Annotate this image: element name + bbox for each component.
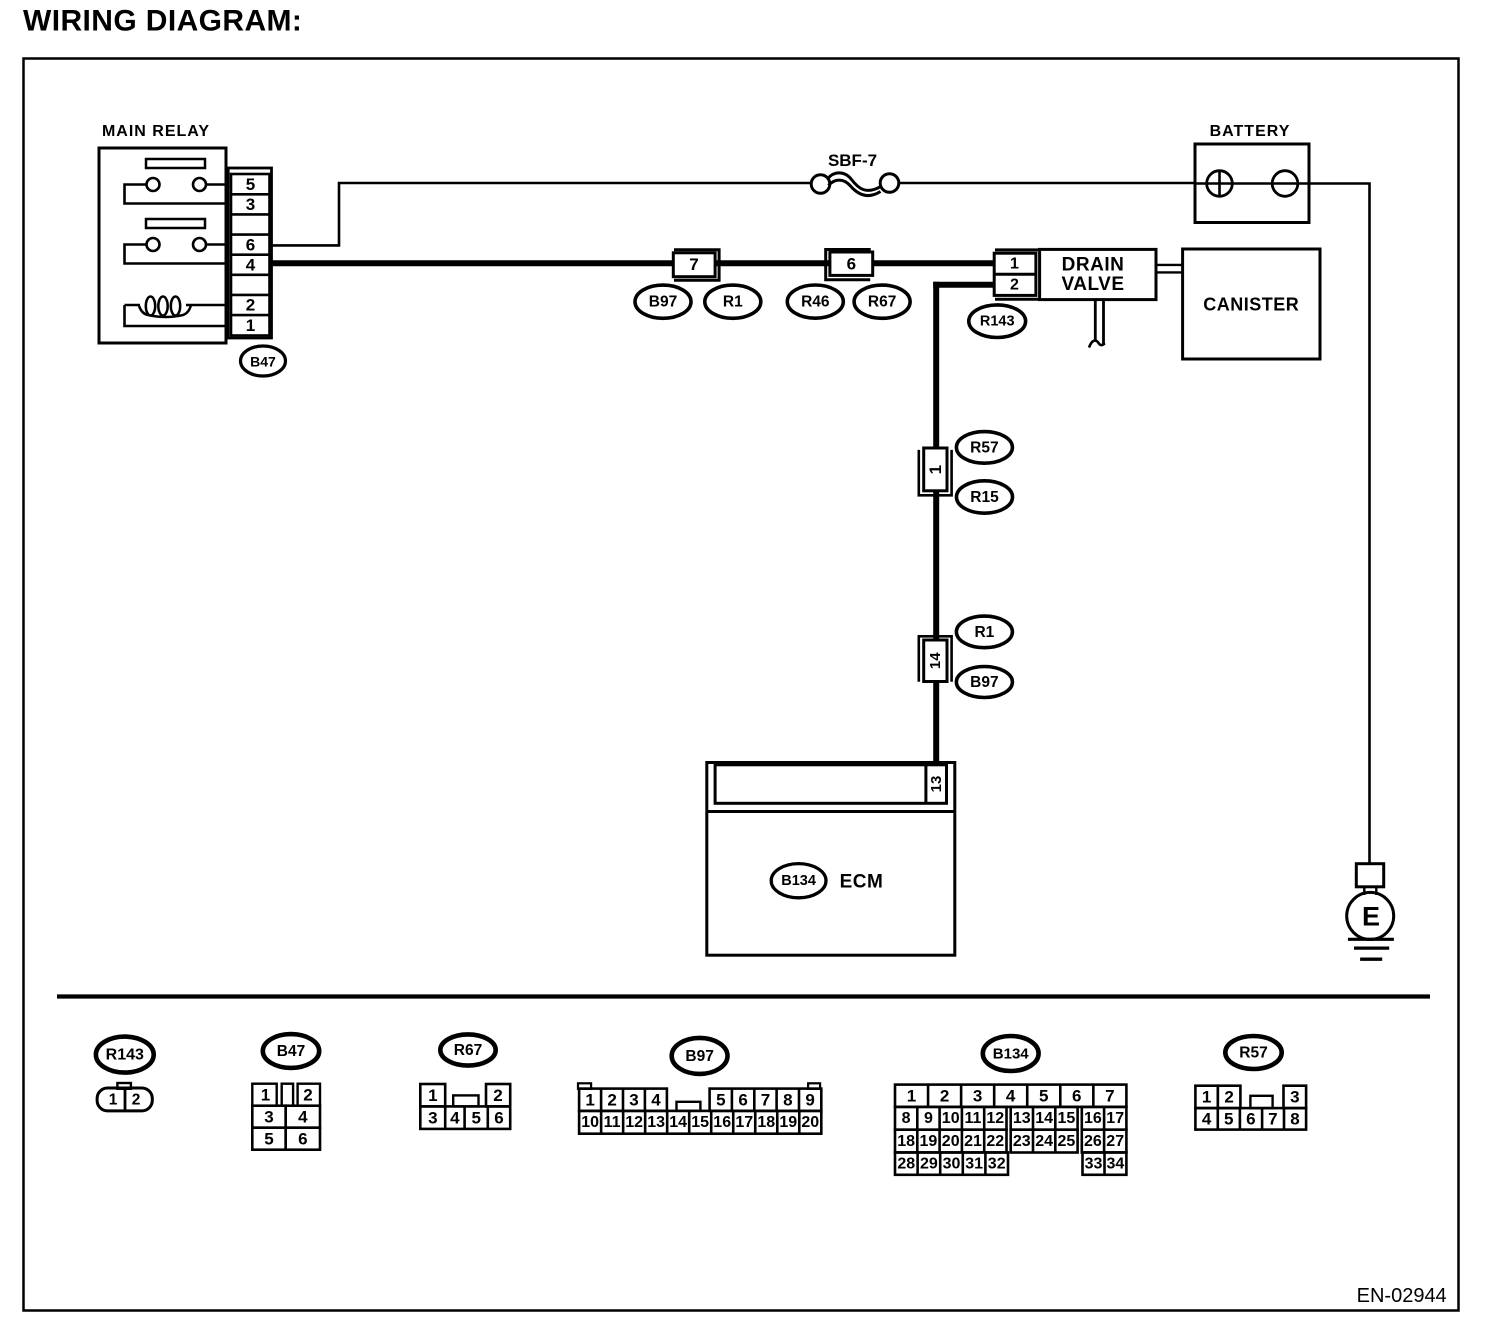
- connector label B97: [635, 285, 691, 318]
- svg-text:2: 2: [607, 1091, 616, 1110]
- drain valve connector bracket lines: [995, 250, 1040, 299]
- inline connector 1 (R57-R15): [919, 448, 952, 495]
- svg-text:R15: R15: [970, 489, 999, 506]
- svg-text:1: 1: [1010, 256, 1019, 273]
- svg-text:5: 5: [246, 175, 255, 194]
- main relay connector pin boxes: [231, 174, 270, 336]
- svg-text:R57: R57: [970, 439, 998, 456]
- svg-text:21: 21: [964, 1133, 982, 1150]
- svg-text:1: 1: [246, 316, 255, 335]
- drain valve pin box: [994, 253, 1036, 295]
- svg-text:13: 13: [647, 1114, 665, 1131]
- wire switch1 right contact to pin 5: [206, 183, 226, 186]
- svg-text:R143: R143: [980, 314, 1015, 330]
- svg-text:17: 17: [735, 1114, 753, 1131]
- svg-text:2: 2: [132, 1092, 141, 1109]
- connector view label B134: [983, 1036, 1039, 1071]
- main relay switch 1 contacts: [147, 178, 207, 191]
- connector view label B47: [263, 1034, 319, 1068]
- svg-text:12: 12: [625, 1114, 643, 1131]
- connector B47 oval (main relay): [241, 346, 286, 376]
- svg-text:19: 19: [779, 1114, 797, 1131]
- svg-text:13: 13: [1013, 1110, 1031, 1127]
- svg-text:16: 16: [1084, 1110, 1102, 1127]
- svg-text:ECM: ECM: [840, 872, 884, 893]
- ECM connector strip: [715, 765, 946, 804]
- svg-text:7: 7: [761, 1091, 770, 1110]
- connector view B47 body: [252, 1084, 320, 1150]
- drain valve vent pipe: [1089, 299, 1105, 347]
- main relay box: [99, 148, 226, 343]
- connector view label R143: [96, 1037, 154, 1073]
- svg-text:9: 9: [805, 1091, 814, 1110]
- connector view label R67: [440, 1034, 495, 1065]
- inline connector 14 (R1-B97): [919, 636, 952, 682]
- fuse SBF-7: [811, 173, 899, 196]
- svg-text:R1: R1: [723, 294, 743, 311]
- svg-text:19: 19: [920, 1133, 938, 1150]
- svg-text:5: 5: [471, 1109, 480, 1128]
- svg-text:28: 28: [897, 1155, 915, 1172]
- svg-text:18: 18: [757, 1114, 775, 1131]
- svg-text:25: 25: [1058, 1133, 1076, 1150]
- drain valve box: [1040, 249, 1156, 299]
- svg-text:7: 7: [689, 255, 698, 274]
- connector view label B97: [672, 1038, 728, 1074]
- wire through battery terminals: [1195, 182, 1309, 185]
- svg-text:2: 2: [303, 1086, 312, 1105]
- svg-text:3: 3: [428, 1109, 437, 1128]
- wire coil to pin 1: [125, 305, 227, 326]
- svg-text:16: 16: [713, 1114, 731, 1131]
- ground neck lines: [1364, 887, 1376, 895]
- connector view label R57: [1225, 1036, 1281, 1069]
- svg-text:32: 32: [988, 1155, 1006, 1172]
- connector view B97 body: [578, 1083, 821, 1133]
- connector label R67: [854, 285, 910, 318]
- svg-text:11: 11: [604, 1114, 621, 1131]
- svg-text:3: 3: [1290, 1088, 1299, 1107]
- svg-text:1: 1: [1202, 1088, 1211, 1107]
- svg-text:12: 12: [986, 1110, 1004, 1127]
- svg-text:31: 31: [965, 1155, 983, 1172]
- svg-text:17: 17: [1106, 1110, 1124, 1127]
- svg-text:3: 3: [264, 1108, 273, 1127]
- svg-text:33: 33: [1085, 1155, 1103, 1172]
- svg-text:4: 4: [1202, 1110, 1212, 1129]
- svg-text:14: 14: [1035, 1110, 1053, 1127]
- svg-text:3: 3: [629, 1091, 638, 1110]
- svg-text:SBF-7: SBF-7: [828, 151, 877, 170]
- svg-text:23: 23: [1013, 1133, 1031, 1150]
- svg-text:1: 1: [585, 1091, 594, 1110]
- svg-text:10: 10: [581, 1114, 599, 1131]
- svg-text:6: 6: [246, 235, 255, 254]
- main relay fixed contact bar 1: [146, 159, 205, 168]
- svg-text:6: 6: [847, 254, 856, 273]
- svg-text:4: 4: [246, 255, 256, 274]
- wire main relay pin 4 to drain valve pin 1 (thick): [272, 260, 1001, 266]
- svg-text:5: 5: [264, 1130, 273, 1149]
- connector label R46: [787, 285, 843, 318]
- svg-text:20: 20: [801, 1114, 819, 1131]
- connector view B134 body: [895, 1085, 1126, 1175]
- connector label R1: [705, 285, 761, 318]
- wire battery to ground drop: [1309, 184, 1370, 865]
- svg-text:B97: B97: [970, 674, 998, 691]
- svg-text:34: 34: [1107, 1155, 1125, 1172]
- svg-text:2: 2: [1010, 276, 1019, 293]
- svg-text:8: 8: [902, 1110, 911, 1127]
- svg-text:15: 15: [691, 1114, 709, 1131]
- main relay connector outer strip: [228, 168, 271, 338]
- svg-text:4: 4: [450, 1109, 460, 1128]
- svg-text:14: 14: [669, 1114, 687, 1131]
- svg-text:1: 1: [926, 465, 945, 474]
- inline connector 6 (R46-R67): [826, 250, 873, 280]
- svg-text:R67: R67: [868, 294, 896, 311]
- svg-text:1: 1: [907, 1087, 916, 1106]
- svg-text:2: 2: [246, 296, 255, 315]
- svg-text:7: 7: [1105, 1087, 1114, 1106]
- ECM box outer: [707, 763, 955, 956]
- svg-text:22: 22: [986, 1133, 1004, 1150]
- connector label R57: [956, 432, 1012, 464]
- connector label R143: [969, 305, 1026, 338]
- svg-text:B134: B134: [993, 1046, 1030, 1063]
- svg-text:B97: B97: [685, 1048, 713, 1065]
- main relay fixed contact bar 2: [146, 219, 205, 228]
- separator line: [57, 994, 1430, 998]
- svg-text:R1: R1: [974, 624, 994, 641]
- svg-text:3: 3: [246, 195, 255, 214]
- svg-text:4: 4: [298, 1108, 308, 1127]
- connector label R15: [957, 481, 1013, 513]
- wire down to ECM pin 13 (thick): [933, 282, 939, 765]
- svg-text:EN-02944: EN-02944: [1357, 1285, 1447, 1307]
- svg-text:6: 6: [738, 1091, 747, 1110]
- svg-text:14: 14: [927, 652, 944, 669]
- svg-text:29: 29: [920, 1155, 938, 1172]
- connector label B97: [956, 667, 1012, 698]
- svg-text:R46: R46: [801, 294, 830, 311]
- svg-text:26: 26: [1084, 1133, 1102, 1150]
- svg-text:R143: R143: [106, 1047, 144, 1064]
- ECM pin 13 cell divider: [924, 765, 927, 804]
- wire pin 6 to battery line riser: [272, 183, 812, 245]
- svg-text:E: E: [1362, 902, 1380, 932]
- connector B134 oval (ECM): [771, 864, 826, 898]
- svg-text:1: 1: [109, 1092, 118, 1109]
- svg-text:DRAIN: DRAIN: [1062, 255, 1125, 276]
- wire switch2 left contact to pin 4: [125, 245, 227, 264]
- svg-text:9: 9: [924, 1110, 933, 1127]
- svg-text:WIRING DIAGRAM:: WIRING DIAGRAM:: [23, 5, 302, 38]
- svg-text:3: 3: [973, 1087, 982, 1106]
- svg-text:10: 10: [942, 1110, 960, 1127]
- svg-text:R57: R57: [1239, 1045, 1267, 1062]
- svg-text:5: 5: [1224, 1110, 1233, 1129]
- svg-text:B47: B47: [277, 1043, 305, 1060]
- svg-text:20: 20: [942, 1133, 960, 1150]
- wire fuse to battery: [899, 182, 1195, 185]
- svg-text:30: 30: [943, 1155, 961, 1172]
- svg-text:8: 8: [1290, 1110, 1299, 1129]
- connector view R143 body: [97, 1083, 152, 1111]
- svg-text:6: 6: [1246, 1110, 1255, 1129]
- svg-text:1: 1: [428, 1086, 437, 1105]
- svg-text:8: 8: [783, 1091, 792, 1110]
- battery box: [1195, 144, 1309, 223]
- svg-text:CANISTER: CANISTER: [1203, 295, 1299, 315]
- ground symbol hatch: [1348, 939, 1394, 959]
- svg-text:B97: B97: [649, 294, 677, 311]
- battery negative terminal: [1272, 171, 1298, 197]
- svg-text:VALVE: VALVE: [1061, 274, 1124, 295]
- svg-text:B47: B47: [250, 354, 276, 370]
- connector label R1: [956, 616, 1012, 648]
- main relay coil: [125, 297, 227, 318]
- svg-text:24: 24: [1035, 1133, 1053, 1150]
- svg-text:15: 15: [1058, 1110, 1076, 1127]
- battery positive terminal: [1207, 171, 1233, 197]
- svg-text:27: 27: [1106, 1133, 1124, 1150]
- svg-text:6: 6: [494, 1109, 503, 1128]
- svg-text:4: 4: [651, 1091, 661, 1110]
- svg-text:7: 7: [1268, 1110, 1277, 1129]
- svg-text:11: 11: [965, 1110, 982, 1127]
- ground E circle: [1347, 892, 1394, 939]
- main relay switch 2 contacts: [147, 238, 207, 251]
- svg-text:2: 2: [940, 1087, 949, 1106]
- connector view R57 body: [1195, 1086, 1306, 1130]
- ground connector square: [1356, 864, 1383, 887]
- svg-text:2: 2: [493, 1086, 502, 1105]
- svg-text:BATTERY: BATTERY: [1210, 123, 1291, 140]
- canister box: [1183, 249, 1320, 359]
- svg-text:1: 1: [261, 1086, 270, 1105]
- svg-text:6: 6: [298, 1130, 307, 1149]
- ECM body top line: [707, 810, 955, 813]
- wire switch2 right contact to pin 6: [206, 243, 226, 246]
- wire drain valve pin 2 leftward (thick): [933, 282, 995, 288]
- svg-text:4: 4: [1006, 1087, 1016, 1106]
- wire switch1 left contact to pin 3: [125, 185, 227, 204]
- svg-text:5: 5: [716, 1091, 725, 1110]
- svg-text:18: 18: [897, 1133, 915, 1150]
- svg-text:6: 6: [1072, 1087, 1081, 1106]
- svg-text:5: 5: [1039, 1087, 1048, 1106]
- svg-text:R67: R67: [454, 1042, 482, 1059]
- svg-text:B134: B134: [781, 873, 816, 889]
- connector view R67 body: [420, 1084, 510, 1129]
- svg-text:13: 13: [928, 776, 945, 793]
- double line drain valve to canister: [1156, 265, 1183, 273]
- inline connector 7 (B97-R1): [673, 250, 719, 281]
- svg-text:MAIN RELAY: MAIN RELAY: [102, 123, 210, 140]
- svg-text:2: 2: [1224, 1088, 1233, 1107]
